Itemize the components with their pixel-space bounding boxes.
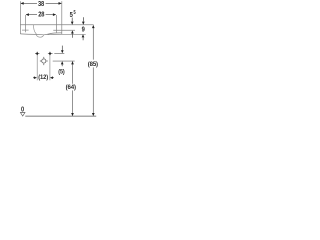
reference line B (tap hole level) <box>53 29 75 31</box>
tap hole cross left bar <box>22 29 29 31</box>
wall anchor centerline left <box>36 52 38 81</box>
dimension 9 lower arrow (up onto line D) <box>82 34 85 37</box>
dimension 28 right arrow <box>53 13 56 16</box>
tap hole centerline left <box>24 15 26 32</box>
dimension 38 line <box>21 2 61 4</box>
drain circle crosshair <box>40 57 48 65</box>
wall anchor marker left <box>35 53 39 55</box>
dimension 28 line <box>26 14 55 16</box>
reference line D (bowl bottom level) <box>48 33 86 35</box>
dimension 5.5 upper arrow (down onto line A) <box>71 18 73 22</box>
basin underside <box>20 33 61 35</box>
dimension 9 upper arrow (down onto line A) <box>82 17 84 21</box>
dimension (5) upper arrow (down onto anchor line) <box>61 46 63 51</box>
dimension 38 right arrow <box>59 2 62 5</box>
dimension (85) top arrow <box>92 25 95 28</box>
dimension 38 left arrow <box>21 2 24 5</box>
svg-text:(12): (12) <box>38 74 48 81</box>
wall anchor centerline right <box>49 52 51 81</box>
extension line left (basin left edge) <box>19 1 21 34</box>
svg-text:28: 28 <box>38 11 45 19</box>
drain level reference line <box>53 60 75 62</box>
dimension 5.5 lower arrow (up onto line B) <box>71 30 74 33</box>
dimension (64) top arrow <box>71 61 74 64</box>
basin bowl inner curve <box>33 25 36 34</box>
dimension 28 left arrow <box>26 13 29 16</box>
svg-text:5: 5 <box>74 10 77 16</box>
datum triangle <box>20 113 25 117</box>
anchor level reference line <box>54 53 64 55</box>
dimension (12) left arrow <box>33 77 34 79</box>
svg-text:(5): (5) <box>58 69 64 75</box>
svg-text:9: 9 <box>82 26 85 34</box>
siphon bump <box>36 34 44 37</box>
svg-text:5: 5 <box>70 11 73 19</box>
svg-text:(85): (85) <box>88 61 98 68</box>
wall anchor marker right <box>48 53 53 55</box>
dimension (5) lower arrow (up onto drain line) <box>61 61 64 64</box>
dimension (64) bottom arrow <box>71 113 74 116</box>
dimension (85) vertical line <box>92 25 94 116</box>
dimension (85) bottom arrow <box>92 113 95 116</box>
svg-text:(64): (64) <box>66 84 76 91</box>
tap hole centerline right <box>55 15 57 33</box>
dimension (12) right arrow <box>50 76 53 79</box>
extension line right (basin right edge) <box>61 1 63 34</box>
basin top rim / reference line A <box>20 24 93 26</box>
floor line <box>25 115 96 117</box>
drain circle <box>42 59 46 63</box>
dimension (64) vertical line <box>72 62 74 116</box>
svg-text:38: 38 <box>38 1 45 9</box>
